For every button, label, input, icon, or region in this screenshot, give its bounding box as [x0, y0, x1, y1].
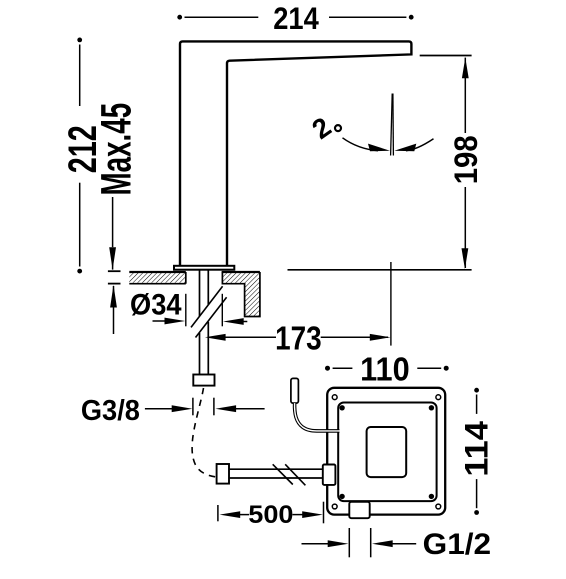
dimension 173: [205, 320, 391, 357]
pipe break marks: [273, 464, 306, 485]
countertop surface extension line: [288, 269, 472, 271]
dimension 110: [325, 351, 449, 388]
svg-text:110: 110: [360, 351, 410, 388]
countertop right section: [222, 272, 260, 317]
control box inner plate: [338, 403, 436, 502]
center window: [367, 427, 407, 477]
svg-text:173: 173: [275, 320, 322, 357]
dimension 198: [448, 58, 484, 269]
svg-text:500: 500: [248, 501, 293, 529]
svg-text:G3/8: G3/8: [81, 395, 140, 427]
spout tip extension line: [420, 55, 472, 57]
svg-text:G1/2: G1/2: [423, 528, 492, 561]
sensor cable: [295, 403, 340, 431]
box bottom outlet stub: [349, 502, 369, 518]
water stream 2-degree lines: [391, 94, 394, 156]
svg-text:198: 198: [448, 135, 484, 184]
svg-text:Ø34: Ø34: [130, 288, 182, 321]
dimension 214: [177, 0, 413, 36]
label 2 degrees: [306, 111, 341, 145]
base flange: [174, 266, 234, 270]
label G1/2: [302, 528, 492, 561]
countertop left section: [129, 272, 186, 284]
svg-text:214: 214: [273, 0, 319, 36]
hose end connector: [217, 464, 229, 484]
sensor cable connector: [291, 378, 299, 403]
control box outer shell: [327, 388, 445, 515]
spout outline: [180, 41, 411, 266]
corner screw holes: [332, 395, 440, 509]
box left inlet stub: [323, 465, 336, 485]
label G3/8: [81, 395, 265, 427]
dimension Max.45: [94, 103, 141, 334]
flexible hose (dashed): [192, 388, 217, 477]
stream extension line: [390, 262, 392, 346]
dimension 500: [218, 501, 324, 529]
inner plate screws: [339, 405, 434, 499]
svg-text:114: 114: [459, 421, 495, 477]
label diameter 34: [130, 288, 247, 326]
shank break marks: [191, 286, 227, 337]
supply pipe: [229, 469, 324, 478]
dimension 212: [61, 38, 105, 274]
svg-text:Max.45: Max.45: [94, 103, 141, 196]
2-degree arc with arrowheads: [343, 138, 434, 151]
shank nut: [193, 375, 214, 386]
threaded shank: [200, 270, 209, 375]
dimension 114: [459, 388, 495, 515]
